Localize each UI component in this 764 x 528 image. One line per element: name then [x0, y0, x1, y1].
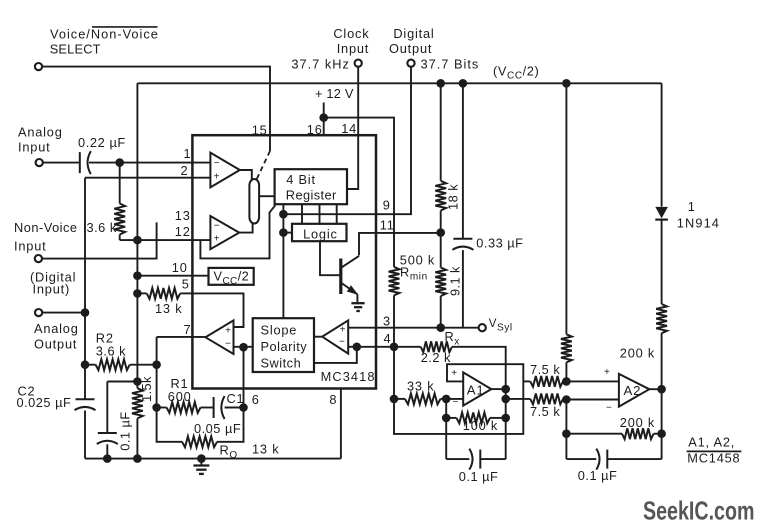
- terminal Clock Input: [355, 60, 362, 67]
- label 18 k (rotated): [445, 184, 460, 210]
- label Analog Output: [34, 321, 79, 351]
- svg-text:Output: Output: [34, 336, 77, 351]
- svg-text:MC1458: MC1458: [687, 451, 740, 466]
- wire pin4 to 33k vertical: [393, 347, 395, 399]
- junction 200k-lower right: [657, 429, 666, 438]
- wire select to pin 15: [42, 67, 270, 151]
- label Analog Input: [18, 125, 63, 155]
- svg-text:0.33 µF: 0.33 µF: [476, 235, 523, 250]
- svg-text:−: −: [339, 336, 346, 347]
- label 100 k: [463, 418, 498, 433]
- junction A1out/100k: [501, 414, 510, 423]
- label 0.33 uF: [476, 235, 523, 250]
- svg-text:0.05 µF: 0.05 µF: [194, 421, 241, 436]
- svg-text:0.22 µF: 0.22 µF: [78, 135, 126, 150]
- IC box MC3418 outline: [192, 135, 376, 388]
- wire selector to register: [259, 195, 275, 197]
- junction 100k left: [442, 414, 451, 423]
- label VSyl: [489, 318, 513, 333]
- terminal Analog Output: [35, 309, 42, 316]
- label Clock Input 37.7 kHz: [291, 26, 369, 72]
- junction ground/bottom-rail: [197, 454, 206, 463]
- wire analog output: [42, 312, 85, 314]
- wire pin 3 to VSyl: [348, 327, 478, 329]
- label 13 k (pin 5): [155, 301, 182, 316]
- svg-text:A1: A1: [467, 383, 485, 398]
- label 0.1 uF (A2): [578, 468, 618, 483]
- svg-text:2: 2: [181, 163, 189, 178]
- wire A2 minus: [566, 399, 619, 401]
- svg-text:9.1 k: 9.1 k: [448, 266, 463, 296]
- wire pin 16 supply: [323, 103, 325, 136]
- op-amp U1c (integrator): [206, 320, 234, 354]
- resistor R0 13k: [157, 408, 244, 448]
- label C2 0.025 uF: [17, 384, 72, 410]
- svg-text:3.6 k: 3.6 k: [96, 343, 126, 358]
- resistor 33k: [394, 394, 446, 405]
- junction pin4/Rmin: [390, 343, 399, 352]
- label +12 V: [315, 86, 354, 101]
- label 1 1N914: [677, 199, 720, 230]
- junction logic-left: [279, 228, 288, 237]
- capacitor 0.22uF: [80, 151, 91, 174]
- wire integrator minus / pin 6: [234, 347, 253, 408]
- junction divider/pin10: [133, 271, 142, 280]
- wire A1 plus feed: [394, 364, 523, 434]
- svg-text:Analog: Analog: [18, 125, 63, 140]
- svg-text:1N914: 1N914: [677, 215, 720, 230]
- svg-text:−: −: [225, 338, 232, 349]
- wire rail to diode: [661, 83, 663, 206]
- wire pin 7: [157, 336, 206, 338]
- label Rx: [445, 329, 460, 348]
- svg-text:SELECT: SELECT: [50, 41, 101, 56]
- svg-text:−: −: [214, 220, 221, 231]
- junction A2 minus: [562, 395, 571, 404]
- svg-text:16: 16: [307, 122, 323, 137]
- selector (min/max block): [249, 179, 259, 224]
- wire A2 plus: [566, 380, 619, 382]
- wire clock pin 14: [347, 67, 358, 189]
- resistor Rx 2.2k: [421, 341, 506, 389]
- svg-text:+: +: [451, 368, 458, 379]
- label RO 13 k: [220, 441, 280, 461]
- junction A1 minus: [442, 395, 451, 404]
- svg-text:7.5 k: 7.5 k: [530, 404, 560, 419]
- svg-text:7.5 k: 7.5 k: [530, 362, 560, 377]
- svg-text:Input: Input: [337, 41, 369, 56]
- svg-text:37.7 kHz: 37.7 kHz: [291, 57, 350, 72]
- wire A1 minus vertical: [445, 399, 447, 459]
- terminal Digital Output: [407, 60, 414, 67]
- wire op-amp U1b output: [239, 223, 252, 233]
- junction divider/pin5: [133, 289, 142, 298]
- label pin 12: [175, 224, 191, 239]
- svg-text:SeekIC.com: SeekIC.com: [643, 496, 755, 526]
- wire pin 12: [120, 239, 211, 241]
- junction 0.1uF/bottom-rail: [103, 454, 112, 463]
- svg-text:A1, A2,: A1, A2,: [688, 435, 735, 450]
- resistor Rmin 500k: [389, 267, 400, 347]
- terminal VSyl: [479, 324, 486, 331]
- label pin 11: [380, 218, 395, 233]
- svg-text:Analog: Analog: [34, 321, 79, 336]
- junction integrator minus: [239, 343, 248, 352]
- label pin 7: [184, 322, 192, 337]
- svg-text:6: 6: [252, 392, 260, 407]
- label (VCC/2) net: [493, 64, 539, 82]
- wire left divider vertical: [136, 83, 138, 458]
- junction +12V: [319, 113, 328, 122]
- svg-text:Slope: Slope: [261, 322, 298, 337]
- resistor 100k: [446, 413, 506, 424]
- junction 1.5k top: [133, 377, 142, 386]
- wire pin 10: [137, 275, 208, 277]
- wire register-logic left / SPS vertical: [282, 204, 284, 318]
- resistor 9.1k: [435, 233, 446, 328]
- svg-text:4: 4: [384, 331, 392, 346]
- label Non-Voice Input: [14, 220, 78, 254]
- svg-text:Voice/Non-Voice: Voice/Non-Voice: [50, 26, 159, 41]
- capacitor C1 0.05uF: [214, 396, 244, 419]
- svg-text:4 Bit: 4 Bit: [286, 172, 316, 187]
- svg-text:0.025 µF: 0.025 µF: [17, 395, 72, 410]
- wire comparator output to SPS: [314, 336, 322, 338]
- wire A1 output: [491, 388, 505, 390]
- wire register-logic line 4: [336, 204, 338, 224]
- wire analog input to pin 1: [43, 162, 210, 164]
- capacitor 0.1uF (A1): [446, 449, 506, 470]
- label 33 k: [407, 378, 434, 393]
- resistor 13k (pin 5): [137, 288, 192, 299]
- svg-text:18 k: 18 k: [445, 184, 460, 210]
- capacitor 0.1uF (left): [97, 382, 118, 459]
- label A1 A2 MC1458: [687, 435, 742, 466]
- svg-text:+: +: [214, 171, 221, 182]
- wire pin 5 to integrator +: [192, 293, 243, 327]
- resistor 3.6k (input): [114, 163, 125, 241]
- svg-text:10: 10: [172, 260, 188, 275]
- svg-text:0.1 µF: 0.1 µF: [459, 469, 499, 484]
- resistor bias (rail to A2+): [561, 83, 572, 381]
- svg-text:37.7 Bits: 37.7 Bits: [421, 57, 480, 72]
- svg-text:Output: Output: [389, 41, 432, 56]
- junction 200k left: [562, 429, 571, 438]
- svg-text:MC3418: MC3418: [321, 369, 376, 384]
- svg-text:3.6 k: 3.6 k: [87, 220, 117, 235]
- junction pin4/SPS: [353, 343, 362, 352]
- label R2 3.6 k: [96, 331, 126, 359]
- svg-text:Register: Register: [286, 187, 337, 202]
- svg-text:Clock: Clock: [333, 26, 369, 41]
- label 200 k upper: [620, 345, 655, 360]
- svg-text:100 k: 100 k: [463, 418, 498, 433]
- op-amp U1d (slope comparator): [322, 320, 348, 353]
- wire pin 2 net vertical: [84, 178, 86, 400]
- svg-text:9: 9: [383, 198, 391, 213]
- ground (transistor emitter): [351, 303, 364, 311]
- label 9.1 k (rotated): [448, 266, 463, 296]
- wire pin 9 to digital output: [283, 67, 411, 214]
- svg-text:5: 5: [182, 277, 190, 292]
- label pin 15: [252, 123, 268, 138]
- capacitor C2 0.025uF: [75, 399, 96, 458]
- svg-text:+: +: [214, 234, 221, 245]
- svg-text:+: +: [604, 367, 611, 378]
- svg-text:+ 12 V: + 12 V: [315, 86, 354, 101]
- junction R2 left: [81, 360, 90, 369]
- junction divider/pin12: [133, 236, 142, 245]
- wire VCC/2 rail: [137, 82, 661, 84]
- wire A1 minus: [446, 398, 463, 400]
- svg-text:1: 1: [184, 146, 192, 161]
- wire bottom ground rail: [85, 458, 341, 460]
- terminal Non-Voice Input: [35, 255, 42, 262]
- svg-text:+: +: [225, 326, 232, 337]
- svg-text:−: −: [214, 158, 221, 169]
- svg-text:Input): Input): [33, 282, 71, 297]
- svg-text:14: 14: [341, 121, 357, 136]
- wire A2 out vertical: [661, 389, 663, 459]
- svg-text:13 k: 13 k: [155, 301, 182, 316]
- wire SPS feedback: [314, 347, 357, 363]
- svg-text:11: 11: [380, 218, 395, 233]
- transistor Q1: [341, 256, 359, 303]
- label pin 10: [172, 260, 188, 275]
- svg-text:Input: Input: [18, 140, 50, 155]
- op-amp A1: [451, 368, 491, 408]
- wire pin 11 collector riser: [359, 233, 441, 256]
- junction divider/bottom-rail: [133, 454, 142, 463]
- wire A2 output: [649, 388, 661, 390]
- wire logic left stub: [283, 232, 292, 234]
- svg-text:+: +: [340, 324, 347, 335]
- wire pin 2: [85, 177, 210, 179]
- junction pin7/R1: [152, 403, 161, 412]
- junction rail/bias-resistor: [562, 79, 571, 88]
- junction 33k left: [390, 395, 399, 404]
- label pin 14: [341, 121, 357, 136]
- svg-text:2.2 k: 2.2 k: [421, 350, 451, 365]
- junction 9.1k/pin3: [436, 323, 445, 332]
- wire register to pin12 branch: [200, 205, 275, 258]
- svg-text:8: 8: [329, 392, 337, 407]
- Logic box: [292, 224, 347, 242]
- label pin 1: [184, 146, 192, 161]
- junction pin6 node: [239, 403, 248, 412]
- wire pin 7 vertical: [156, 337, 158, 408]
- wire A2 minus vertical: [565, 400, 567, 460]
- resistor 7.5k lower: [506, 394, 567, 405]
- svg-text:Logic: Logic: [303, 227, 338, 242]
- label 7.5 k upper: [530, 362, 560, 377]
- svg-text:3: 3: [383, 314, 391, 329]
- svg-text:1.5k: 1.5k: [139, 376, 154, 402]
- op-amp U1b (input comparator): [210, 216, 239, 249]
- junction analog-in/3.6k: [115, 158, 124, 167]
- resistor 7.5k upper: [523, 376, 566, 387]
- label C1: [227, 391, 245, 406]
- resistor 200k upper (feedback): [656, 304, 667, 389]
- wire 0.1uF top link: [107, 381, 137, 383]
- wire logic to base: [320, 241, 341, 275]
- wire pin 8 drop: [340, 389, 342, 459]
- svg-text:Polarity: Polarity: [261, 339, 308, 354]
- wire pin 4 line: [348, 346, 421, 348]
- capacitor 0.33uF: [452, 83, 473, 327]
- VCC/2 reference box: [209, 268, 254, 287]
- junction rail/0.33uF: [459, 79, 468, 88]
- label (Digital Input): [30, 270, 76, 297]
- svg-text:Input: Input: [14, 239, 46, 254]
- svg-text:7: 7: [184, 322, 192, 337]
- label R1 600: [168, 376, 192, 404]
- svg-text:Digital: Digital: [393, 26, 434, 41]
- wire A1 out vertical: [505, 389, 507, 459]
- label 500 k Rmin: [400, 253, 435, 283]
- resistor 18k: [435, 83, 446, 232]
- ground (bottom rail): [193, 459, 209, 474]
- op-amp A2: [604, 367, 649, 414]
- capacitor 0.1uF (A2): [566, 449, 661, 470]
- svg-text:A2: A2: [624, 383, 642, 398]
- wire register-logic line 2: [301, 204, 303, 224]
- svg-text:Switch: Switch: [261, 356, 302, 371]
- wire +12V to Rmin: [324, 118, 394, 267]
- dashed switch-control line pin 15: [257, 151, 271, 180]
- label pin 6: [252, 392, 260, 407]
- label pin 16: [307, 122, 323, 137]
- label 1.5k (rotated): [139, 376, 154, 402]
- junction analog-out: [81, 308, 90, 317]
- junction register/pin9: [279, 210, 288, 219]
- junction 18k/pin11: [436, 228, 445, 237]
- label 0.05 uF: [194, 421, 241, 436]
- label 0.22 uF: [78, 135, 126, 150]
- label pin 2: [181, 163, 189, 178]
- junction rail/18k: [436, 79, 445, 88]
- svg-text:−: −: [606, 403, 613, 414]
- svg-text:15: 15: [252, 123, 268, 138]
- wire non-voice input to pin 13: [42, 222, 156, 258]
- junction A1 out: [501, 385, 510, 394]
- watermark SeekIC.com: [643, 496, 755, 526]
- label 200 k lower: [620, 415, 655, 430]
- svg-text:13 k: 13 k: [252, 441, 279, 456]
- svg-text:0.1 µF: 0.1 µF: [578, 468, 618, 483]
- junction pin7/R2: [152, 360, 161, 369]
- op-amp U1a (input comparator): [210, 153, 239, 188]
- resistor R2 3.6k: [85, 359, 157, 370]
- svg-text:200 k: 200 k: [620, 345, 655, 360]
- label pin 9: [383, 198, 391, 213]
- label MC3418: [321, 369, 376, 384]
- resistor 200k lower: [566, 428, 661, 439]
- label Digital Output 37.7 Bits: [389, 26, 479, 72]
- label pin 3: [383, 314, 391, 329]
- resistor 1.5k: [132, 388, 143, 418]
- label 7.5 k lower: [530, 404, 560, 419]
- label pin 8: [329, 392, 337, 407]
- wire register-logic line 3: [319, 204, 321, 224]
- diode D1 1N914: [655, 207, 668, 304]
- svg-text:Non-Voice: Non-Voice: [14, 220, 78, 235]
- label 2.2 k: [421, 350, 451, 365]
- svg-text:200 k: 200 k: [620, 415, 655, 430]
- Slope Polarity Switch box: [253, 318, 314, 372]
- junction A2 plus: [562, 377, 571, 386]
- terminal Voice/Non-Voice SELECT input: [35, 63, 42, 70]
- wire op-amp U1a output: [240, 170, 252, 180]
- label 3.6 k (input): [87, 220, 117, 235]
- junction A2 out: [657, 385, 666, 394]
- svg-text:0.1 µF: 0.1 µF: [117, 411, 132, 451]
- resistor R1 600: [157, 402, 214, 413]
- label 0.1 uF (left, rotated): [117, 411, 132, 451]
- junction A1out/7.5k: [501, 395, 510, 404]
- svg-text:13: 13: [175, 208, 191, 223]
- svg-text:12: 12: [175, 224, 191, 239]
- label 0.1 uF (A1): [459, 469, 499, 484]
- terminal Analog Input: [36, 159, 43, 166]
- label pin 5: [182, 277, 190, 292]
- label Voice/Non-Voice SELECT: [50, 26, 159, 56]
- label pin 13: [175, 208, 191, 223]
- svg-text:1: 1: [688, 199, 696, 214]
- 4 Bit Register box: [275, 169, 347, 204]
- label pin 4: [384, 331, 392, 346]
